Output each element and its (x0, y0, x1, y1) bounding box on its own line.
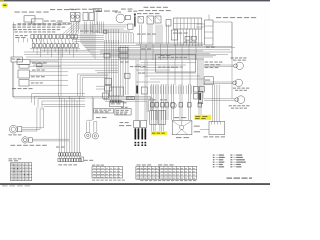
label right of fuse (120, 122, 124, 123)
long right vertical wire (231, 22, 233, 99)
rear turn signal L (237, 96, 245, 104)
coil secondary boxes (83, 13, 88, 21)
alternator box (172, 121, 192, 135)
V3 connector row 2 (58, 158, 60, 161)
left long vertical pair (11, 62, 13, 96)
vertical drops from coils/horn (70, 22, 72, 34)
label right of rows (84, 160, 88, 161)
horizontals under horn (93, 24, 128, 26)
front turn signal label (11, 145, 16, 146)
bottom caption text (2, 185, 8, 186)
wires below row 2 dropping to bus (32, 48, 34, 52)
connector row 2 (13 pin boxes) (32, 44, 35, 48)
vertical pair x58-61 (58, 47, 60, 97)
label rear sub harness (58, 164, 62, 165)
center table 1 header (137, 164, 141, 165)
center table 0 (92, 167, 123, 179)
small boxes under horn (104, 30, 107, 33)
ignition switch label (15, 35, 18, 36)
center table 1 (136, 166, 159, 179)
alternator label below (176, 137, 182, 138)
vertical bundle V1 (104, 40, 106, 101)
labels right of modules (32, 63, 36, 64)
comb stubs below ECU (150, 86, 152, 95)
connector row 1 (13 pin boxes) (31, 34, 34, 38)
module output wires going right (30, 60, 59, 62)
verticals to coil prong connectors (144, 60, 146, 121)
right mid component box (204, 77, 213, 85)
horn circle (116, 14, 125, 23)
staircase lower horizontals (32, 93, 86, 95)
extra speck labels upper area (18, 23, 22, 24)
wires below hatched connectors (151, 125, 153, 132)
handlebar switch labels (144, 7, 149, 8)
tall hatched connector A (150, 111, 157, 125)
label text: front turn signal / headlight top (15, 12, 20, 13)
yellow highlight label (right) (194, 115, 211, 120)
speck labels center low (149, 99, 152, 100)
left edge vertical line (13, 22, 15, 57)
verticals crossing ECU area (167, 60, 169, 85)
diode arrow mark (134, 14, 137, 17)
inline connector boxes y103 (151, 103, 155, 107)
small label box (126, 97, 134, 100)
top scan border bar (0, 0, 270, 1)
extra verticals below row1 left edge (18, 38, 20, 42)
vertical bundle V3 (to tail harness) (58, 97, 60, 153)
labels above alternator (174, 117, 179, 118)
label box x93 (94, 9, 102, 12)
label rear turn signal top (216, 17, 221, 18)
black prongs (135, 128, 137, 139)
verticals down to battery (211, 85, 213, 122)
headlight label (9, 134, 12, 135)
box below V1 (103, 93, 109, 98)
part number (227, 177, 233, 179)
labels along bus (141, 48, 145, 49)
yellow highlighter dot (2, 3, 9, 8)
stubs from label box (94, 12, 96, 25)
verticals joining headlight wires (36, 108, 38, 132)
bottom scan border bar (0, 183, 270, 185)
center table 2 (160, 166, 197, 179)
relay boxes right (194, 87, 199, 93)
horizontals through ECU area (140, 62, 196, 64)
wires row1 to row2 (32, 39, 33, 44)
verticals dropping to lower components (151, 84, 153, 120)
bends into hatched connectors (150, 96, 152, 110)
small box left (141, 87, 147, 94)
right box component (205, 20, 214, 45)
right box wires (196, 23, 205, 25)
ignition coil 2 (75, 13, 80, 22)
vertical drops from switches (139, 25, 141, 45)
battery label (204, 136, 208, 137)
turn signal light R rear (236, 62, 243, 69)
extra short bus segments right half (136, 43, 204, 45)
extra verticals top center-left (105, 29, 107, 43)
vertical bundle V2 (120, 45, 122, 95)
left module box 5 (19, 80, 29, 87)
prong connector boxes (134, 121, 140, 128)
left module box 2 (17, 60, 30, 65)
elbow cascade from coils into main bus (80, 24, 82, 43)
ECU big box (156, 55, 196, 72)
switch cluster 1 (138, 17, 144, 24)
V3 connector row 1 (58, 153, 60, 156)
front turn signal left (22, 137, 28, 143)
extra verticals switch area to bus (140, 44, 142, 60)
indicator bulbs (85, 132, 91, 138)
speedometer box (24, 16, 35, 22)
cluster label boxes (110, 102, 124, 107)
switch cluster 2 (147, 16, 154, 24)
round sensor (171, 103, 177, 109)
center table 0 header (92, 165, 95, 166)
tall component x171 (171, 30, 177, 40)
4 small boxes row (111, 100, 113, 103)
label turn signal relay (44, 21, 49, 22)
tachometer box (32, 19, 44, 24)
left module box 1 (11, 57, 23, 62)
label text rows above connector row (13, 24, 17, 25)
yellow highlight label (center) (151, 131, 167, 135)
diagonal feed wires from right (63, 20, 80, 34)
right wire labels (205, 62, 209, 63)
labels above coils (69, 9, 74, 10)
label L rear turn signal (229, 105, 232, 106)
wire color legend (213, 155, 215, 156)
table cell text specks (93, 168, 96, 169)
main harness bus lines (81, 42, 203, 44)
right feed verticals (196, 60, 198, 99)
left module labels (12, 88, 16, 89)
tall hatched connector B (158, 111, 165, 125)
small box right of row2 (81, 157, 84, 161)
switch cluster 3 (155, 16, 161, 23)
connector grid center-bottom (110, 87, 124, 96)
label R rear turn signal (231, 57, 234, 58)
label taillight (233, 88, 236, 89)
left joining horizontals (12, 95, 150, 97)
small mid component (37, 63, 43, 67)
battery (209, 122, 225, 135)
extra mid horizontals (95, 70, 118, 72)
labels right of alternator (194, 126, 200, 127)
wires above coils going left (56, 22, 70, 24)
nested corner staircase (78, 73, 108, 75)
left continuity table header (9, 158, 12, 159)
black bar left (136, 86, 138, 94)
headlight (9, 125, 17, 133)
horn label (115, 12, 118, 13)
wire from box top right (213, 21, 232, 23)
connector boxes center (104, 54, 110, 59)
small connector x166 (166, 20, 171, 27)
ignition coil 1 (70, 13, 75, 22)
bend down from joining lines (91, 96, 93, 120)
left module box 3 (19, 65, 29, 69)
left continuity table (11, 163, 32, 181)
left module box 4 (18, 70, 30, 78)
extra elbow horizontals x68-105 (68, 34, 104, 36)
right column tall connector (198, 91, 203, 104)
battery label (119, 125, 124, 126)
small boxes y36 (185, 36, 190, 40)
long connector block (174, 18, 202, 29)
extra horizontals left rows merge (30, 48, 80, 50)
taillight circle (235, 79, 242, 86)
